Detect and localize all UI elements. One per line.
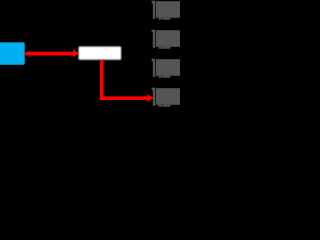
card icon 3: [152, 59, 181, 78]
wire arrow host to switch: [25, 49, 79, 57]
card icon 4: [152, 88, 181, 107]
card icon 2: [152, 30, 181, 49]
node switch (white box): [79, 47, 122, 60]
wire elbow switch to card 4: [100, 60, 154, 102]
card icon 1: [152, 1, 181, 20]
node host (cyan box): [0, 42, 25, 64]
